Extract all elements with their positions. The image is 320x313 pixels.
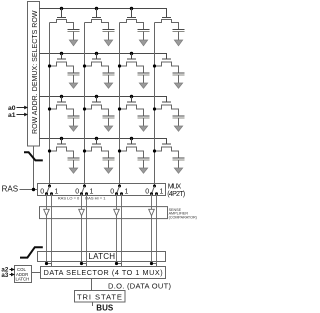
wire a3 arrow [10,274,15,276]
svg-text:0: 0 [75,189,79,196]
ground (cell 4,3) [139,168,147,173]
svg-text:a0: a0 [8,105,16,112]
junction dot latch output 4 [150,262,153,265]
junction dot bit line 3 source Q43 [118,149,121,152]
svg-text:1: 1 [55,189,59,196]
junction dot bit line 4 source Q24 [153,64,156,67]
capacitor C12 [103,30,115,41]
capacitor C22 [103,73,115,83]
transistor Q13 [120,18,144,30]
svg-text:1: 1 [90,189,94,196]
junction dot word line row 2 gate Q22 [95,52,98,55]
transistor Q23 [120,59,144,73]
wire sense line 4a [151,194,153,264]
capacitor C42 [103,158,115,168]
wire sense line 3a [116,194,118,264]
transistor Q43 [120,144,144,158]
svg-text:0: 0 [145,189,149,196]
tri state buffer box [75,291,126,303]
bit line column 2 [84,23,86,187]
mux pole 1 wiper [47,186,50,194]
wire gate stub Q21 [61,54,63,60]
wire gate stub Q23 [131,54,133,60]
junction dot word line row 2 gate Q23 [130,52,133,55]
row address demux box U1 [28,2,40,147]
svg-text:ROW ADDR. DEMUX: SELECTS ROW: ROW ADDR. DEMUX: SELECTS ROW [32,10,39,134]
junction dot bit line 1 source Q31 [48,107,51,110]
wire latch output merge 1 [47,264,52,267]
capacitor C21 [68,73,80,83]
wire latch output merge 3 [117,264,122,267]
junction dot word line row 1 gate Q11 [60,7,63,10]
bit line column 1 [49,23,51,187]
wire gate stub Q12 [96,9,98,18]
mux pole 4 throw 1 dot [155,192,158,195]
bit line column 3 [119,23,121,187]
wire column latch to data selector [32,272,41,274]
wire demux to RAS line [33,146,35,190]
svg-text:1: 1 [160,189,164,196]
wire a2 arrow [10,269,15,271]
transistor Q21 [50,59,74,73]
op-amp sense amplifier A2 [79,209,85,216]
mux pole 3 common dot [118,185,121,188]
wire gate stub Q22 [96,54,98,60]
ground (cell 1,1) [69,40,77,46]
svg-text:0: 0 [110,189,114,196]
svg-text:(4P2T): (4P2T) [167,191,185,198]
wire RAS to mux [20,189,38,191]
wire a0 arrow into demux [17,107,28,109]
transistor Q22 [85,59,109,73]
transistor Q14 [155,18,179,30]
wire gate stub Q31 [61,97,63,103]
transistor Q34 [155,102,179,116]
junction dot word line row 3 gate Q33 [130,95,133,98]
ground (cell 4,1) [69,168,77,173]
junction dot word line row 4 gate Q43 [130,137,133,140]
capacitor C32 [103,116,115,126]
transistor Q42 [85,144,109,158]
word line row 2 [40,54,167,60]
svg-text:a3: a3 [1,272,8,279]
transistor Q11 [50,18,74,30]
transistor Q12 [85,18,109,30]
wire sense line 1a [46,194,48,264]
bit line column 4 [154,23,156,187]
svg-text:1: 1 [125,189,129,196]
junction dot RAS [32,188,35,191]
junction dot bit line 3 source Q33 [118,107,121,110]
transistor Q32 [85,102,109,116]
op-amp sense amplifier A3 [114,209,120,216]
wire gate stub Q32 [96,97,98,103]
wire gate stub Q41 [61,139,63,145]
capacitor C13 [138,30,150,41]
junction dot word line row 3 gate Q32 [95,95,98,98]
mux pole 2 wiper [82,186,85,194]
junction dot word line row 3 gate Q31 [60,95,63,98]
svg-text:LATCH: LATCH [16,277,30,282]
wire sense line 1b [51,194,53,264]
svg-text:RAS LO = 0: RAS LO = 0 [58,196,80,201]
mux pole 3 throw 0 dot [115,192,118,195]
wire gate stub Q42 [96,139,98,145]
junction dot word line row 1 gate Q13 [130,7,133,10]
wire data selector to tri state [91,279,93,291]
junction dot bit line 3 source Q23 [118,64,121,67]
word line row 1 [40,9,167,18]
junction dot bit line 1 source Q21 [48,64,51,67]
junction dot bit line 4 source Q34 [153,107,156,110]
wire a1 arrow into demux [17,114,28,116]
svg-text:RAS: RAS [2,185,18,194]
RAS falling edge symbol [24,152,43,160]
ground (cell 4,2) [104,168,112,173]
capacitor C43 [138,158,150,168]
svg-text:LATCH: LATCH [89,252,116,261]
junction dot bit line 1 source Q41 [48,149,51,152]
wire tri state to bus [92,302,94,306]
junction dot latch output 1 [45,262,48,265]
mux pole 3 wiper [117,186,120,194]
transistor Q31 [50,102,74,116]
ground (cell 3,2) [104,126,112,131]
data selector box [41,267,166,279]
svg-text:MUX: MUX [168,183,182,190]
mux pole 2 throw 1 dot [85,192,88,195]
capacitor C23 [138,73,150,83]
transistor Q44 [155,144,179,158]
ground (cell 1,2) [104,40,112,46]
mux pole 4 throw 0 dot [150,192,153,195]
capacitor C41 [68,158,80,168]
wire sense line 2a [81,194,83,264]
capacitor C14 [173,30,185,41]
junction dot word line row 1 gate Q12 [95,7,98,10]
mux pole 1 common dot [48,185,51,188]
mux box (4P2T) [38,184,166,196]
ground (cell 1,4) [174,40,182,46]
wire sense line 4b [156,194,158,264]
junction dot word line row 2 gate Q21 [60,52,63,55]
capacitor C44 [173,158,185,168]
mux pole 2 throw 0 dot [80,192,83,195]
capacitor C31 [68,116,80,126]
junction dot bit line 4 source Q44 [153,149,156,152]
svg-text:0: 0 [40,189,44,196]
sense amplifier box [40,207,168,219]
capacitor C33 [138,116,150,126]
mux pole 2 common dot [83,185,86,188]
junction dot latch output 3 [115,262,118,265]
mux pole 3 throw 1 dot [120,192,123,195]
mux pole 1 throw 1 dot [50,192,53,195]
mux pole 4 common dot [153,185,156,188]
ground (cell 3,3) [139,126,147,131]
junction dot bit line 2 source Q42 [83,149,86,152]
ground (cell 2,4) [174,83,182,88]
capacitor C24 [173,73,185,83]
capacitor C11 [68,30,80,41]
ground (cell 2,1) [69,83,77,88]
junction dot bit line 2 source Q32 [83,107,86,110]
svg-text:a1: a1 [8,112,16,119]
latch box [38,252,166,262]
svg-text:TRI STATE: TRI STATE [77,293,122,302]
wire gate stub Q11 [61,9,63,18]
transistor Q41 [50,144,74,158]
svg-text:D.O. (DATA OUT): D.O. (DATA OUT) [108,281,172,290]
word line row 4 [40,139,167,145]
ground (cell 3,4) [174,126,182,131]
wire gate stub Q33 [131,97,133,103]
wire gate stub Q43 [131,139,133,145]
ground (cell 3,1) [69,126,77,131]
ground (cell 2,3) [139,83,147,88]
ground (cell 4,4) [174,168,182,173]
svg-text:DATA SELECTOR (4 TO 1 MUX): DATA SELECTOR (4 TO 1 MUX) [44,268,163,277]
wire sense line 3b [121,194,123,264]
ground (cell 2,2) [104,83,112,88]
op-amp sense amplifier A4 [149,209,155,216]
CAS rising edge symbol [20,247,43,257]
junction dot bit line 2 source Q22 [83,64,86,67]
svg-text:RAS HI = 1: RAS HI = 1 [85,196,106,201]
capacitor C34 [173,116,185,126]
junction dot word line row 4 gate Q41 [60,137,63,140]
column address latch box U2 [15,266,32,283]
ground (cell 1,3) [139,40,147,46]
svg-text:(COMPARATOR): (COMPARATOR) [169,215,197,219]
transistor Q33 [120,102,144,116]
wire latch output merge 2 [82,264,87,267]
svg-text:BUS: BUS [96,304,114,313]
mux pole 1 throw 0 dot [45,192,48,195]
wire sense line 2b [86,194,88,264]
word line row 3 [40,97,167,103]
junction dot word line row 4 gate Q42 [95,137,98,140]
junction dot latch output 2 [80,262,83,265]
mux pole 4 wiper [152,186,155,194]
op-amp sense amplifier A1 [44,209,50,216]
wire latch output merge 4 [152,264,157,267]
transistor Q24 [155,59,179,73]
wire gate stub Q13 [131,9,133,18]
